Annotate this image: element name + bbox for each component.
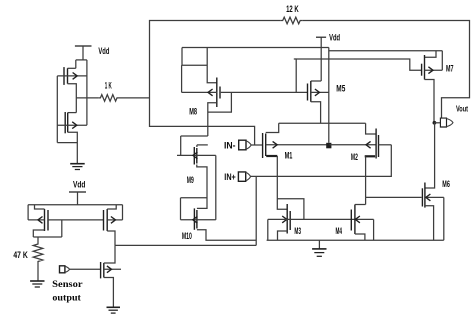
wire bottom rail [267, 239, 444, 241]
label M8 [189, 106, 197, 116]
wire T1-T2 gate link [56, 76, 58, 143]
wire T2 diode link [57, 142, 77, 144]
label M3 [294, 226, 301, 236]
wire sensor port to gate [70, 268, 101, 270]
wire Ts drain [104, 245, 115, 263]
ground sensor [107, 307, 121, 313]
wire 1K to box [119, 97, 150, 99]
wire mid node to 1K [76, 97, 98, 99]
svg-text:Vout: Vout [456, 103, 468, 113]
svg-text:M4: M4 [336, 226, 343, 236]
wire M1 source down [277, 156, 287, 209]
wire M3 source [278, 231, 288, 240]
label IN+ [224, 172, 236, 182]
wire M8 bulk left [181, 65, 183, 92]
label M6 [442, 179, 450, 189]
transistor M5 [308, 81, 329, 102]
wire to 47K [33, 237, 62, 243]
svg-text:Vdd: Vdd [329, 33, 340, 43]
wire M9 source to M10 drain [197, 165, 207, 209]
power Vdd center [316, 37, 326, 81]
port Vout [440, 118, 453, 127]
wire M4 bulk down [373, 219, 375, 240]
wire M7 gate bias [294, 59, 422, 92]
label M1 [285, 150, 293, 160]
label IN- [224, 140, 236, 150]
wire mirror gate link [48, 219, 104, 221]
wire M3-M4 gate line [268, 218, 374, 220]
svg-text:12 K: 12 K [286, 4, 299, 14]
wire 12K to Vout feedback [302, 21, 469, 119]
svg-text:Vdd: Vdd [98, 46, 109, 56]
wire diode drop [61, 220, 63, 237]
svg-text:IN-: IN- [224, 140, 236, 150]
transistor M4 [351, 205, 360, 235]
wire 47K to ground [37, 263, 39, 281]
wire box top left segment [182, 47, 329, 49]
wire M5 source to rail [311, 102, 321, 123]
wire Tb2 source [107, 231, 115, 245]
label M4 [336, 226, 343, 236]
transistor T1 drain wire [68, 60, 87, 68]
wire M8 diode link [208, 92, 232, 112]
label M5 [336, 84, 345, 94]
wire 12K left feed [150, 21, 281, 146]
svg-text:M8: M8 [189, 106, 197, 116]
transistor M9 [177, 147, 216, 165]
transistor Tb2 [104, 209, 123, 231]
transistor M6 [422, 183, 443, 208]
wire Tb1 source [33, 230, 44, 237]
wire bottom-left rail [28, 204, 122, 206]
wire M5 bulk to tail node [328, 48, 330, 143]
svg-text:47 K: 47 K [13, 250, 28, 260]
wire M4 drain up [355, 197, 366, 204]
transistor M10 [181, 208, 216, 229]
ground 47K [30, 281, 44, 287]
power Vdd bottom-left [69, 192, 86, 205]
wire M2 gate link [379, 144, 392, 146]
wire box left stub [182, 48, 207, 66]
label Vout [456, 103, 468, 113]
transistor Tb1 [28, 209, 48, 231]
ground top-left [70, 164, 85, 170]
wire T2 source to ground [68, 132, 78, 163]
port Sensor [60, 266, 70, 273]
svg-text:M5: M5 [336, 84, 345, 94]
wire Vout stem [434, 122, 440, 124]
label M10 [182, 231, 192, 241]
wire M1 source bar [266, 155, 277, 157]
wire M2 source down [365, 156, 367, 197]
transistor M8 [182, 78, 220, 108]
wire M8 drain [207, 48, 217, 83]
wire M7 source to Vout [425, 80, 435, 123]
resistor R3 47K [33, 243, 43, 264]
wire T1 source to mid node [68, 84, 77, 113]
wire M7 drain [425, 51, 437, 58]
wire IN- to M1 gate [251, 144, 262, 146]
wire M2 drain loop [366, 123, 377, 134]
wire M9 drain box [181, 136, 208, 155]
svg-text:M9: M9 [187, 175, 194, 185]
node Vout junction dot [433, 121, 437, 125]
wire M10 source [197, 230, 256, 240]
wire M4 source [355, 234, 365, 240]
power Vdd top-left [75, 46, 92, 60]
wire M2 source bar [365, 155, 375, 157]
label Vdd center [329, 33, 340, 43]
transistor M7 [422, 55, 443, 80]
ground center [312, 249, 326, 256]
svg-text:M1: M1 [285, 150, 293, 160]
wire right spine [86, 60, 88, 125]
transistor M3 [282, 204, 290, 234]
label Vdd top-left [98, 46, 109, 56]
svg-text:M6: M6 [442, 179, 450, 189]
svg-text:Vdd: Vdd [73, 179, 85, 189]
wire T2 drain jog [68, 112, 77, 114]
label 47 K [13, 250, 28, 260]
resistor R1 12K [281, 17, 303, 24]
transistor M2 [366, 129, 379, 159]
wire sensor long wire [115, 244, 256, 246]
transistor T2 [57, 112, 87, 133]
svg-text:M2: M2 [351, 152, 358, 162]
wire Tb1 bulk left [27, 205, 29, 220]
svg-text:1 K: 1 K [105, 80, 112, 90]
label Vdd bottom-left [73, 179, 85, 189]
wire M8 gate to M5 gate [221, 91, 308, 93]
svg-text:M7: M7 [446, 64, 454, 74]
label M9 [187, 175, 194, 185]
wire M6 drain [425, 123, 435, 188]
port IN- [239, 140, 252, 150]
port IN+ [238, 172, 250, 181]
svg-text:output: output [52, 294, 81, 304]
wire Tb2 bulk right [122, 205, 124, 220]
wire gate line to sensor node [267, 219, 269, 240]
wire M6 bulk down [443, 197, 445, 240]
wire box top right segment [329, 50, 443, 52]
transistor M1 [263, 133, 330, 158]
wire IN+ node down to sensor wire [255, 176, 257, 245]
label M2 [351, 152, 358, 162]
label Sensor [52, 280, 82, 290]
wire M6 gate wire [366, 196, 422, 198]
wire ground stub center [318, 240, 320, 249]
label 12 K [286, 4, 299, 14]
wire M8 source [208, 103, 217, 136]
svg-text:M3: M3 [294, 226, 301, 236]
wire M10 drain box [181, 198, 208, 220]
label output [52, 294, 81, 304]
svg-text:Sensor: Sensor [52, 280, 82, 290]
svg-text:M10: M10 [182, 231, 192, 241]
wire M3 diode link [277, 199, 304, 220]
label 1 K [105, 80, 112, 90]
wire Ts source [104, 278, 114, 308]
wire tail line to M2 [330, 144, 377, 146]
transistor T1 [57, 67, 87, 85]
wire Tb1 drain [35, 205, 45, 209]
transistor Ts [101, 262, 121, 278]
wire M6 source [425, 206, 434, 241]
wire M7 bulk corner [441, 51, 443, 70]
resistor R2 1K [98, 95, 119, 102]
wire Tb2 drain [107, 205, 116, 209]
wire IN+ to M2 gate [251, 145, 392, 177]
label M7 [446, 64, 454, 74]
wire M9 gate to M10 gate [215, 155, 217, 219]
wire diff pair top rail [279, 122, 366, 124]
wire M1 drain loop [266, 123, 279, 132]
svg-text:IN+: IN+ [224, 172, 236, 182]
node tail junction square [326, 143, 331, 149]
wire M5 drain [311, 80, 321, 82]
